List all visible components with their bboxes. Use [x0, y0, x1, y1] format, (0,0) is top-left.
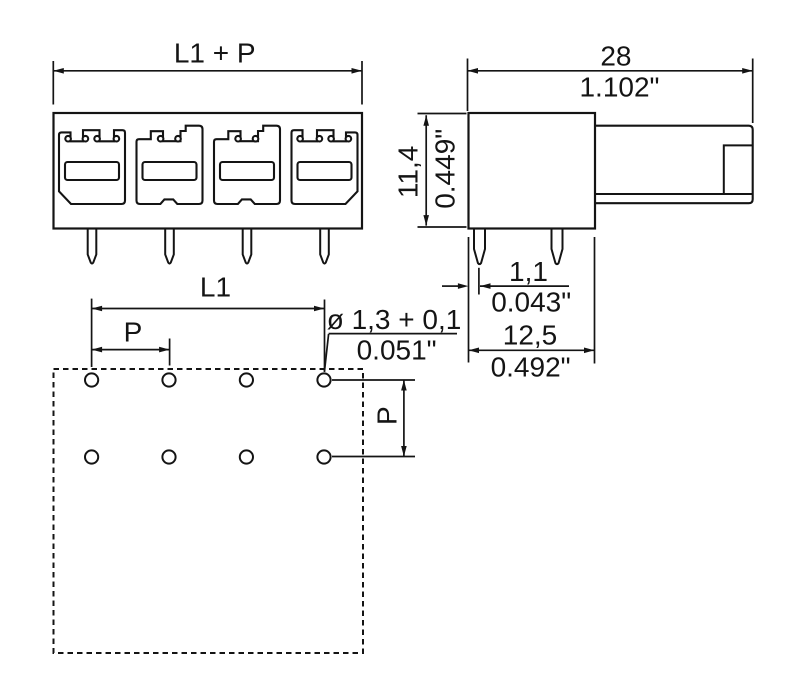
side pin 2: [552, 229, 563, 265]
drill hole row1-1: [85, 373, 98, 386]
svg-text:0.043": 0.043": [491, 287, 571, 318]
dimension P (vertical): [332, 380, 415, 457]
svg-text:P: P: [372, 406, 403, 425]
drill hole row2-1: [85, 450, 98, 463]
dimension 28 / 1.102": [468, 59, 753, 124]
plug inner bottom line: [595, 193, 753, 195]
svg-text:11,4: 11,4: [393, 146, 424, 198]
drill hole row1-2: [162, 373, 175, 386]
svg-text:P: P: [124, 317, 143, 348]
svg-text:ø 1,3 + 0,1: ø 1,3 + 0,1: [327, 304, 462, 335]
svg-text:12,5: 12,5: [503, 319, 558, 350]
side view plug extension: [595, 126, 753, 204]
svg-text:1.102": 1.102": [579, 71, 659, 102]
svg-text:1,1: 1,1: [509, 256, 548, 287]
dimension 12,5 / 0.492": [469, 237, 595, 364]
latch window: [724, 145, 753, 194]
dimension 11,4 / 0.449": [418, 114, 467, 228]
dimension L1 + P: [53, 61, 362, 105]
side view body: [469, 113, 596, 229]
dimension P (horizontal): [92, 339, 170, 366]
drill hole row2-2: [162, 450, 175, 463]
terminal contact 3: [214, 126, 280, 204]
PCB outline (dashed): [54, 369, 364, 653]
dimension 1,1 / 0.043": [442, 237, 569, 363]
drill hole row1-4: [317, 373, 330, 386]
dimension L1: [92, 299, 325, 372]
drill hole row2-4: [317, 450, 330, 463]
front pin 3: [243, 229, 252, 264]
front pin 1: [88, 229, 97, 264]
svg-text:L1 + P: L1 + P: [174, 37, 256, 68]
terminal contact 2: [137, 126, 203, 204]
terminal contact 4: [292, 130, 358, 204]
front housing outline: [54, 113, 363, 229]
svg-text:0.449": 0.449": [429, 129, 460, 209]
svg-text:28: 28: [600, 41, 631, 72]
side pin 1: [474, 229, 485, 265]
svg-text:L1: L1: [200, 272, 231, 303]
drill hole row2-3: [240, 450, 253, 463]
front pin 2: [165, 229, 174, 264]
svg-text:0.492": 0.492": [491, 352, 571, 383]
drill hole row1-3: [240, 373, 253, 386]
hole diameter callout: [324, 334, 457, 372]
terminal contact 1: [59, 130, 125, 204]
front pin 4: [320, 229, 329, 264]
svg-text:0.051": 0.051": [357, 334, 437, 365]
